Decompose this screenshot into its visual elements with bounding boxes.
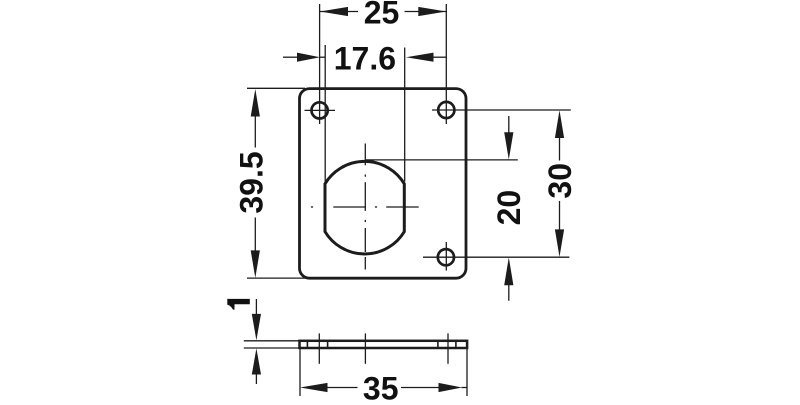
- svg-text:35: 35: [363, 371, 399, 400]
- svg-text:30: 30: [542, 163, 578, 199]
- svg-text:25: 25: [364, 0, 400, 31]
- svg-text:20: 20: [491, 190, 527, 226]
- svg-text:17.6: 17.6: [334, 40, 396, 76]
- svg-text:39.5: 39.5: [234, 151, 270, 213]
